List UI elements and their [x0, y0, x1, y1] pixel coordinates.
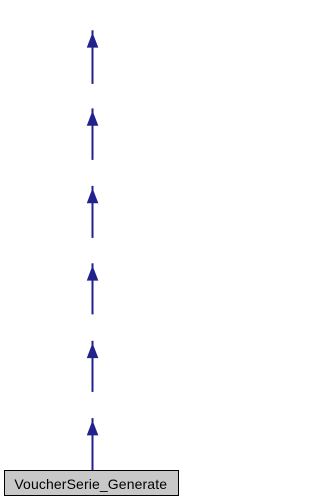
arrow edge 6 (into node box) [87, 418, 99, 470]
arrow edge 2 [87, 108, 99, 159]
arrow edge 4 [87, 263, 99, 314]
node box VoucherSerie_Generate [5, 471, 179, 496]
arrow edge 3 [87, 186, 99, 238]
arrow edge 1 (topmost, pointing up) [87, 30, 99, 84]
arrow edge 5 [87, 341, 99, 392]
svg-text:VoucherSerie_Generate: VoucherSerie_Generate [14, 476, 167, 492]
